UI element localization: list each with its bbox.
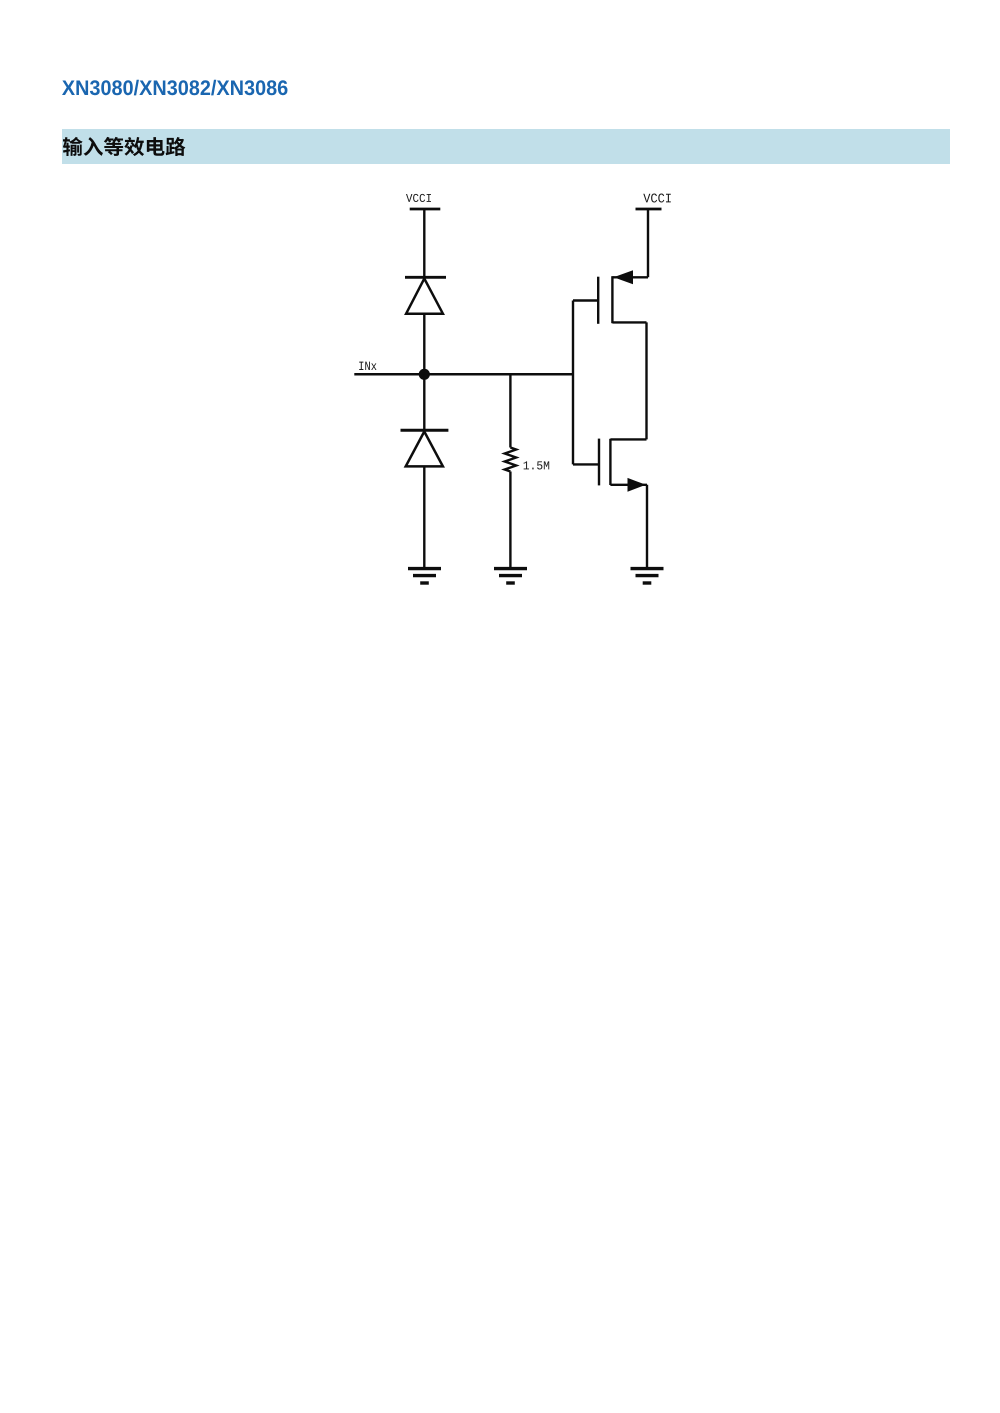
wire resistor R1 to ground	[509, 472, 511, 569]
wire Q2 source to ground	[646, 485, 648, 569]
label INx	[359, 362, 376, 370]
document title XN3080/XN3082/XN3086	[62, 80, 287, 96]
node input junction dot	[419, 369, 430, 380]
wire D2 anode to ground	[423, 466, 425, 568]
wire input to resistor R1	[509, 374, 511, 447]
section banner background	[62, 129, 950, 164]
label 1.5M	[524, 461, 550, 469]
power VCCI rail (right)	[636, 208, 662, 211]
transistor Q2 NMOS	[573, 439, 647, 492]
power VCCI rail (left)	[410, 208, 441, 211]
wire VCCI rail to Q1 source	[647, 209, 649, 277]
ground under Q2	[631, 569, 664, 583]
ground under R1	[494, 569, 527, 583]
wire VCCI rail to D1 cathode	[423, 209, 425, 277]
power VCCI label (right)	[643, 194, 671, 203]
wire D1 anode to input node	[423, 314, 425, 375]
banner title 输入等效电路	[63, 137, 185, 156]
wire INx horizontal	[354, 373, 573, 376]
wire input node to D2 cathode	[423, 374, 425, 430]
wire Q1 drain to Q2 drain	[645, 322, 647, 439]
resistor R1	[505, 448, 516, 472]
ground under D2	[408, 569, 441, 583]
diode D1 input clamp to VCCI	[405, 277, 446, 313]
power VCCI label (left)	[406, 194, 431, 202]
diode D2 input clamp to GND	[401, 430, 449, 466]
wire gate bus	[572, 301, 574, 465]
transistor Q1 PMOS	[573, 270, 648, 324]
